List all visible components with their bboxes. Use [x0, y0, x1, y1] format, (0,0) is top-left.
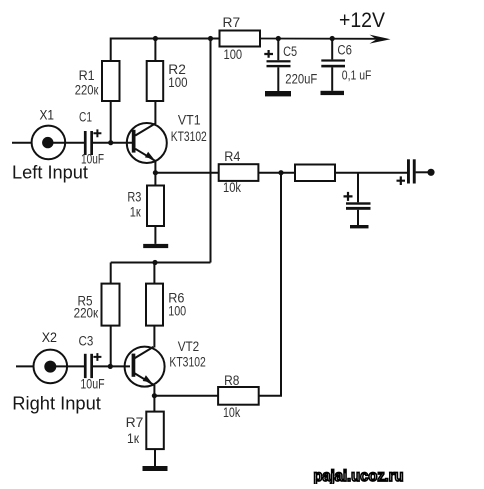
- svg-text:C3: C3: [79, 334, 94, 349]
- wire R1 to base node: [110, 101, 112, 143]
- node top C6: [330, 36, 335, 41]
- svg-text:10uF: 10uF: [80, 377, 104, 392]
- svg-text:100: 100: [224, 47, 243, 62]
- node top feed: [208, 36, 213, 41]
- node top R2: [153, 36, 158, 41]
- svg-text:Left Input: Left Input: [12, 163, 88, 183]
- wire X1 to C1: [48, 142, 84, 144]
- node emitter VT1: [153, 170, 158, 175]
- resistor R6: [146, 263, 186, 326]
- wire +12V top rail left: [111, 39, 220, 62]
- resistor R5: [74, 263, 120, 367]
- svg-text:KT3102: KT3102: [169, 355, 205, 370]
- svg-text:+12V: +12V: [339, 9, 385, 32]
- ground R7 lower: [143, 466, 168, 471]
- svg-text:VT1: VT1: [178, 113, 201, 128]
- svg-text:R3: R3: [127, 190, 141, 205]
- svg-text:Right Input: Right Input: [12, 393, 101, 413]
- svg-text:1к: 1к: [130, 205, 141, 220]
- resistor R1: [75, 61, 120, 101]
- svg-text:R8: R8: [224, 373, 239, 388]
- ground R3: [143, 244, 168, 248]
- svg-text:220uF: 220uF: [285, 71, 317, 86]
- svg-text:R7: R7: [223, 15, 241, 30]
- wire collector VT2: [153, 326, 155, 348]
- svg-text:X2: X2: [42, 330, 57, 345]
- wire +12V top rail right: [260, 38, 380, 40]
- capacitor C3: [79, 334, 105, 392]
- wire emitter VT2 to R8: [154, 395, 218, 397]
- svg-text:VT2: VT2: [178, 339, 200, 354]
- connector X1: [32, 108, 66, 160]
- ground C6: [321, 91, 345, 95]
- svg-text:220к: 220к: [75, 83, 99, 98]
- wire input left X2: [16, 365, 34, 367]
- svg-text:C1: C1: [79, 110, 92, 125]
- wire +12V vertical feed to stage 2: [210, 39, 212, 263]
- capacitor C5: [264, 39, 317, 92]
- node output terminal: [427, 169, 434, 176]
- wire input left: [12, 142, 32, 144]
- wire C3 to base VT2: [93, 365, 130, 367]
- resistor mix (unlabeled): [295, 165, 335, 182]
- svg-text:R7: R7: [126, 415, 144, 430]
- svg-text:220к: 220к: [74, 305, 99, 320]
- ground filter cap: [350, 225, 369, 228]
- svg-text:pajai.ucoz.ru: pajai.ucoz.ru: [314, 468, 404, 484]
- node base VT1: [108, 140, 113, 145]
- svg-text:0,1 uF: 0,1 uF: [342, 69, 372, 83]
- svg-text:R1: R1: [79, 68, 95, 83]
- svg-text:C6: C6: [337, 43, 352, 58]
- wire tap to filter cap: [357, 173, 359, 203]
- node emitter VT2: [152, 393, 157, 398]
- svg-text:100: 100: [168, 75, 187, 90]
- svg-text:X1: X1: [40, 108, 55, 123]
- resistor R7 lower: [126, 396, 164, 466]
- wire mix bus down to R8: [259, 173, 281, 396]
- wire output: [416, 171, 428, 173]
- wire mix resistor to output cap: [335, 172, 407, 174]
- node base VT2: [108, 364, 113, 369]
- svg-text:R4: R4: [224, 149, 241, 164]
- svg-text:10k: 10k: [223, 180, 241, 195]
- wire stage2 rail: [111, 262, 211, 264]
- wire R4 to mix node: [258, 172, 295, 174]
- transistor VT1: [127, 113, 207, 164]
- svg-text:KT3102: KT3102: [171, 129, 207, 144]
- svg-text:C5: C5: [283, 44, 297, 59]
- resistor R7: [220, 15, 261, 62]
- wire emitter VT1 to R4: [155, 172, 218, 174]
- capacitor C6: [321, 39, 371, 91]
- capacitor output (series): [397, 159, 416, 185]
- wire collector VT1: [154, 101, 156, 124]
- node stage2 rail R6: [152, 260, 157, 265]
- svg-text:1к: 1к: [127, 431, 139, 446]
- capacitor filter (electrolytic): [344, 192, 371, 225]
- +12V arrow: [370, 35, 391, 44]
- svg-text:100: 100: [168, 303, 186, 318]
- wire emitter VT1: [154, 162, 156, 173]
- node top C5: [276, 36, 281, 41]
- connector X2: [34, 330, 68, 383]
- resistor R4: [219, 149, 259, 195]
- resistor R3: [127, 173, 164, 244]
- node mix: [278, 170, 283, 175]
- ground C5: [265, 91, 291, 96]
- resistor R2: [147, 61, 188, 101]
- wire C1 to base: [93, 142, 132, 144]
- transistor VT2: [125, 339, 206, 387]
- wire X2 to C3: [50, 365, 84, 367]
- resistor R8: [218, 373, 259, 420]
- capacitor C1: [79, 110, 104, 167]
- svg-text:10k: 10k: [223, 405, 240, 420]
- wire emitter VT2: [153, 385, 155, 396]
- wire R2 top: [154, 39, 156, 62]
